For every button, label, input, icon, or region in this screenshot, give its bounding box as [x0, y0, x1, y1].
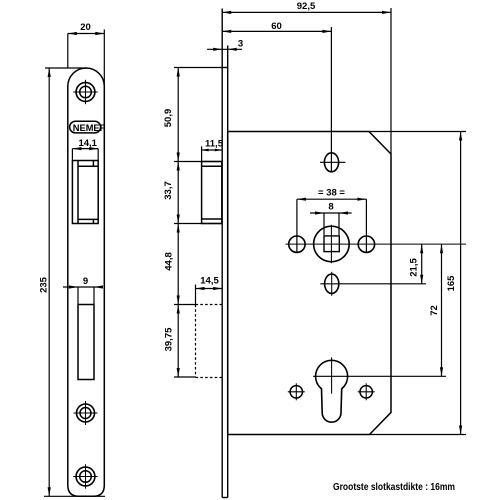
dim 50,9 text [163, 109, 174, 128]
latch bolt side view [202, 162, 222, 224]
dim 39,75 arrow top [177, 305, 180, 314]
dim 44,8 arrow bottom [177, 296, 180, 305]
dim 72 line [441, 244, 443, 376]
dim 38 extension right through hole [365, 199, 367, 252]
note text [333, 481, 455, 493]
dim 38 arrow right [357, 198, 366, 201]
dim 33,7 arrow top [177, 162, 180, 171]
dim 20 line [68, 33, 105, 35]
dim 8 arrow left [315, 211, 324, 214]
extension line latch bottom [174, 223, 222, 225]
dim 235 bottom extension [44, 495, 105, 497]
screw hole middle [74, 401, 98, 425]
dim 11,5 line [202, 149, 222, 151]
fixing hole left (38) [289, 236, 305, 252]
dim 9 line [63, 286, 103, 288]
extension line top of faceplate [174, 67, 222, 69]
dim 11,5 arrow right [215, 149, 222, 152]
dim 14,1 text [78, 138, 97, 149]
dim 92,5 arrow right [382, 11, 391, 14]
deadbolt hidden (dashed) [196, 305, 223, 378]
dim 20 extension left [67, 34, 69, 68]
dim 72 arrow top [440, 244, 443, 253]
svg-text:9: 9 [83, 276, 88, 287]
follower boss circle [314, 226, 350, 262]
dim 33,7 arrow bottom [177, 215, 180, 224]
fixing hole right (38) [358, 236, 374, 252]
svg-text:21,5: 21,5 [409, 258, 420, 277]
screw hole bottom [73, 464, 97, 488]
extension line deadbolt bottom [174, 376, 196, 378]
svg-text:50,9: 50,9 [163, 109, 174, 128]
faceplate side view front line [221, 9, 223, 498]
dim 33,7 text [163, 181, 174, 200]
cylinder fixing hole right [358, 383, 375, 400]
dim 72 text [429, 305, 440, 316]
extension line latch top [174, 161, 222, 163]
dim 14,5 arrow right [213, 287, 222, 290]
dim 60 line [222, 30, 331, 32]
left dim column line [177, 68, 179, 378]
bottom slotted hole [325, 274, 339, 293]
follower square hole [324, 236, 339, 252]
dim 60 arrow left [222, 30, 231, 33]
dim 9 arrow right [94, 285, 103, 288]
dim 14,1 arrow left [72, 147, 81, 150]
dim 38 extension left through hole [296, 199, 298, 252]
dim 38 arrow left [297, 198, 306, 201]
dim 92,5 right extension [390, 8, 392, 154]
dim 3 line [207, 48, 242, 50]
bottom slotted hole h-centerline + extension [320, 283, 426, 285]
dim 8 extension right [338, 213, 340, 235]
dim 20 extension right [103, 30, 105, 88]
dim 50,9 arrow top [177, 68, 180, 77]
dim 38 line [297, 198, 367, 200]
top slotted hole [324, 153, 338, 172]
dim 44,8 text [163, 252, 174, 271]
svg-text:44,8: 44,8 [163, 252, 174, 271]
svg-text:72: 72 [429, 305, 440, 316]
svg-text:NEMEF: NEMEF [73, 123, 106, 134]
faceplate side bottom cap [222, 497, 228, 499]
dim 165 line [460, 132, 462, 435]
dim 21,5 text [409, 258, 420, 277]
dim 20 arrow left [68, 32, 77, 35]
faceplate side top cap [222, 67, 228, 69]
cylinder fixing hole left [288, 383, 305, 400]
svg-text:Grootste slotkastdikte : 16mm: Grootste slotkastdikte : 16mm [333, 481, 455, 493]
svg-text:33,7: 33,7 [163, 181, 174, 200]
dim 8 arrow right [339, 211, 348, 214]
dim 39,75 text [163, 327, 174, 351]
dim 14,1 line [72, 148, 98, 150]
dim 235 arrow bottom [48, 487, 51, 496]
dim 20 text [80, 22, 91, 33]
NEMEF logo [70, 121, 106, 134]
dim 14,5 line [196, 288, 223, 290]
svg-text:60: 60 [271, 21, 282, 32]
cylinder h-centerline + extension to 72 dim [313, 375, 446, 377]
dim 9 extension left [77, 287, 79, 305]
svg-text:39,75: 39,75 [163, 327, 174, 351]
extension line deadbolt top [174, 304, 196, 306]
dim =38= text [318, 188, 345, 199]
dim 11,5 text [205, 139, 224, 150]
svg-text:11,5: 11,5 [205, 139, 224, 150]
dim 3 text [238, 38, 243, 49]
dim 3 arrow right [228, 48, 237, 51]
euro cylinder hole [316, 360, 348, 422]
dim 60 text [271, 21, 282, 32]
svg-text:3: 3 [238, 38, 243, 49]
dim 50,9 arrow bottom [177, 153, 180, 162]
svg-text:92,5: 92,5 [297, 1, 316, 12]
dim 21,5 arrow bottom [420, 275, 423, 284]
dim 21,5 line [421, 244, 423, 284]
dim 8 line [310, 212, 352, 214]
svg-text:20: 20 [80, 22, 91, 33]
faceplate side view back line [227, 46, 229, 498]
case bottom extension to 165 dim [370, 434, 467, 436]
dim 39,75 arrow bottom [177, 368, 180, 377]
fixing holes h-centerline through follower + extension to right dims [286, 243, 467, 245]
dim 8 text [328, 202, 333, 213]
dim 60 arrow right [322, 30, 331, 33]
cylinder v-centerline [331, 357, 333, 393]
dim 11,5 arrow left [202, 149, 209, 152]
dim 165 arrow top [459, 132, 462, 141]
dim 14,5 extension left [195, 285, 197, 305]
dim 165 arrow bottom [459, 426, 462, 435]
dim 60 axis line down to top slot [330, 27, 332, 172]
latch bolt front view [72, 161, 98, 224]
svg-text:8: 8 [328, 202, 333, 213]
dim 21,5 arrow top [420, 244, 423, 253]
deadbolt slot front view [78, 305, 94, 380]
follower v-centerline [330, 225, 332, 263]
svg-text:165: 165 [446, 275, 457, 292]
dim 235 arrow top [48, 68, 51, 77]
dim 14,1 extension right [97, 149, 99, 161]
svg-text:14,5: 14,5 [200, 276, 219, 287]
dim 14,1 arrow right [89, 147, 98, 150]
svg-text:235: 235 [38, 276, 49, 293]
svg-text:= 38 =: = 38 = [318, 188, 345, 199]
dim 9 text [83, 276, 88, 287]
dim 44,8 arrow top [177, 224, 180, 233]
dim 92,5 line [222, 11, 391, 13]
dim 235 top extension [45, 67, 87, 69]
dim 235 text [38, 276, 49, 293]
dim 14,5 arrow left [196, 287, 205, 290]
dim 9 arrow left [69, 285, 78, 288]
top slotted hole h-centerline [320, 161, 346, 163]
dim 3 arrow left [213, 48, 222, 51]
lock case outline [228, 132, 391, 435]
faceplate outline [68, 68, 105, 496]
dim 8 extension left [323, 213, 325, 235]
dim 20 arrow right [95, 32, 104, 35]
dim 72 arrow bottom [440, 367, 443, 376]
dim 92,5 arrow left [222, 11, 231, 14]
case top extension to 165 dim [369, 131, 466, 133]
dim 11,5 extension left [201, 146, 203, 161]
bottom slotted hole v-centerline [331, 272, 333, 296]
dim 165 text [446, 275, 457, 292]
dim 235 line [48, 68, 50, 496]
dim 14,1 extension left [71, 149, 73, 161]
dim 14,5 text [200, 276, 219, 287]
screw hole top [73, 80, 97, 104]
dim 9 extension right [93, 287, 95, 305]
dim 92,5 text [297, 1, 316, 12]
